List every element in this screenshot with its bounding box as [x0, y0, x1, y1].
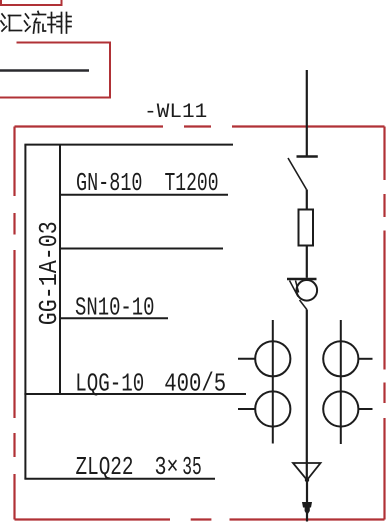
CT TA2b circle: [323, 391, 358, 426]
svg-text:LQG-10: LQG-10: [75, 369, 144, 399]
disconnector QS blade: [288, 158, 307, 190]
CT TA2b secondary stub: [358, 408, 372, 410]
CT TA2a secondary stub: [358, 358, 372, 360]
breaker body box: [299, 210, 314, 246]
wire breaker to cable head: [306, 310, 308, 481]
oil circuit breaker QF contact bar: [287, 278, 317, 280]
svg-text:3×: 3×: [155, 452, 179, 482]
disconnector QS fixed contact bar: [297, 155, 318, 158]
wire incoming drop: [306, 70, 308, 156]
junction dot: [305, 478, 309, 482]
cable arrow (to load): [302, 502, 312, 515]
wire cable run: [306, 480, 308, 522]
svg-text:GG-1A-03: GG-1A-03: [34, 221, 64, 325]
CT TA2a circle: [323, 341, 358, 376]
svg-text:GN-810: GN-810: [76, 168, 143, 198]
CT TA1a circle: [255, 341, 290, 376]
table frame: [24, 145, 246, 479]
incoming feeder cubicle box (left, cut off): [0, 43, 110, 98]
cable termination head (triangle): [293, 463, 321, 480]
busbar cubicle box (top, cut off): [1, 0, 62, 5]
wire blade to fuse box: [306, 190, 308, 210]
CT TA1 primary line (left): [272, 320, 274, 444]
CT TA1b circle: [255, 391, 290, 426]
svg-text:ZLQ22: ZLQ22: [76, 452, 134, 482]
svg-text:SN10-10: SN10-10: [75, 293, 155, 323]
svg-text:400/5: 400/5: [164, 369, 226, 399]
svg-text:T1200: T1200: [165, 168, 219, 198]
wire box to breaker: [306, 246, 308, 278]
cubicle outline WL11 (dashed): [15, 127, 385, 520]
svg-text:35: 35: [182, 452, 202, 482]
node busbar label 汇流排: [1, 12, 71, 34]
oil circuit breaker QF body circle: [297, 280, 318, 301]
wire busbar stub: [0, 69, 89, 71]
CT TA2 primary line (right): [340, 320, 342, 444]
svg-text:-WL11: -WL11: [144, 101, 207, 124]
CT TA1a secondary stub: [238, 358, 255, 360]
oil circuit breaker QF blade wedge: [290, 281, 307, 310]
CT TA1b secondary stub: [238, 408, 255, 410]
